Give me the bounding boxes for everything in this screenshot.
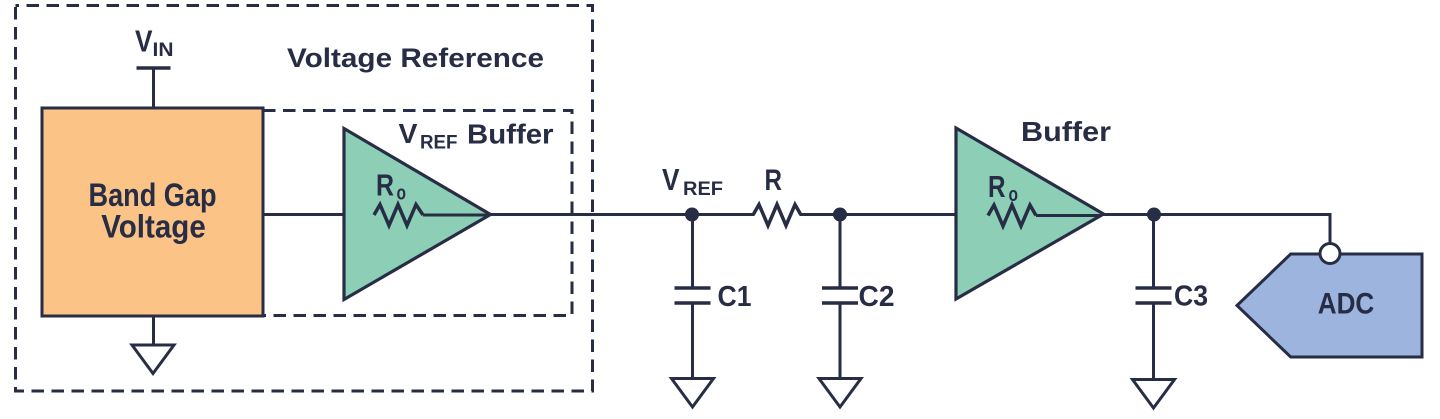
wire node C3 to ADC corner <box>1154 215 1330 244</box>
op-amp buffer U1 <box>344 129 491 300</box>
svg-text:R: R <box>376 168 394 203</box>
svg-text:Buffer: Buffer <box>467 119 554 150</box>
wire resistor R to node C2 <box>800 213 840 216</box>
node C3 junction <box>1147 208 1161 222</box>
band gap block <box>42 108 263 316</box>
wire node C2 to buffer U2 <box>840 213 956 216</box>
label Ro of U2 <box>988 169 1018 206</box>
ground under C2 <box>819 379 861 408</box>
ground under C1 <box>672 379 714 408</box>
capacitor C1 <box>675 288 711 303</box>
wire Ro to U2 tip <box>1036 214 1101 217</box>
supply terminal VIN bar <box>137 68 171 108</box>
ADC block <box>1237 254 1422 357</box>
capacitor C3 <box>1136 288 1172 303</box>
label Band Gap Voltage <box>89 177 217 245</box>
node C2 junction <box>833 208 847 222</box>
label VIN <box>135 24 174 62</box>
resistor R <box>753 205 801 226</box>
svg-text:ADC: ADC <box>1318 288 1375 321</box>
inner dashed box buffer <box>263 111 572 316</box>
wire C3 to ground <box>1152 303 1155 380</box>
wire node VREF to resistor R <box>692 213 754 216</box>
svg-text:C3: C3 <box>1174 281 1208 313</box>
svg-text:V: V <box>399 118 418 149</box>
label VREF <box>662 162 723 200</box>
svg-text:o: o <box>1009 184 1019 206</box>
wire band gap ground <box>152 316 155 345</box>
op-amp buffer U2 <box>956 128 1104 299</box>
wire U2 output to node C3 <box>1101 213 1154 216</box>
svg-text:R: R <box>988 169 1006 204</box>
wire Ro to U1 tip <box>423 214 489 217</box>
svg-text:V: V <box>135 24 153 59</box>
ground under band gap <box>132 345 174 374</box>
svg-text:Voltage Reference: Voltage Reference <box>287 43 544 73</box>
svg-text:REF: REF <box>420 133 458 154</box>
svg-text:C2: C2 <box>859 281 895 313</box>
wire band gap to buffer U1 <box>263 213 343 216</box>
label VREF Buffer <box>399 118 554 154</box>
outer dashed box Voltage Reference <box>16 6 593 392</box>
capacitor C1 wire from node <box>691 215 694 289</box>
svg-text:R: R <box>765 164 783 197</box>
svg-text:Buffer: Buffer <box>1021 116 1111 147</box>
ADC input terminal circle <box>1320 244 1340 264</box>
svg-text:V: V <box>662 162 680 197</box>
wire C2 to ground <box>839 303 842 379</box>
svg-text:C1: C1 <box>718 281 752 313</box>
resistor Ro zigzag of U2 <box>988 205 1036 226</box>
wire C1 to ground <box>691 303 694 379</box>
svg-text:Voltage: Voltage <box>101 209 206 245</box>
svg-text:REF: REF <box>683 179 723 200</box>
capacitor C2 <box>822 288 858 303</box>
ground under C3 <box>1133 380 1175 409</box>
wire U1 output to node VREF <box>489 213 692 216</box>
label Ro of U1 <box>376 168 406 205</box>
resistor Ro zigzag of U1 <box>374 205 423 226</box>
svg-text:IN: IN <box>153 40 174 61</box>
node VREF <box>685 208 699 222</box>
capacitor C2 wire from node <box>839 215 842 289</box>
capacitor C3 wire from node <box>1152 215 1155 289</box>
